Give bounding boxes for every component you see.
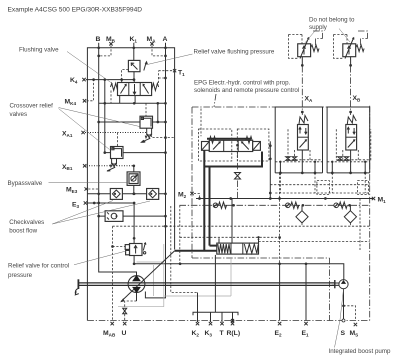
orifice spring symbol 1 xyxy=(213,202,226,208)
port K4 xyxy=(70,77,86,84)
port MK4 xyxy=(65,99,87,106)
svg-text:EPG Electr.-hydr. control with: EPG Electr.-hydr. control with prop. xyxy=(194,80,291,87)
port R(L) xyxy=(227,319,241,337)
checkvalve boost left xyxy=(110,189,122,200)
boost filter orifice box xyxy=(105,211,123,222)
svg-text:Relief valve for control: Relief valve for control xyxy=(8,263,69,270)
port B tick xyxy=(96,36,101,48)
wire K4 line xyxy=(86,78,134,81)
remote pilot mid rail dashed xyxy=(270,184,369,186)
wire upper crossover drain dashed xyxy=(153,136,175,139)
wire MA gauge dashed xyxy=(152,46,166,56)
wire B bus xyxy=(97,46,136,275)
orifice bowtie under EPG valve xyxy=(235,152,241,199)
port M1 xyxy=(372,197,386,204)
pilot orifice bus wire xyxy=(180,204,370,207)
svg-text:valves: valves xyxy=(10,111,28,118)
wire lower crossover right port to A xyxy=(123,151,167,154)
XA cartridge solid frame xyxy=(275,107,322,173)
bottom port bracket xyxy=(193,312,238,322)
case drain dashed xyxy=(171,206,198,293)
orifice spring symbol 3 xyxy=(334,202,347,208)
wire flushing valve bottom line xyxy=(99,96,167,105)
XA pilot dashed box xyxy=(288,129,323,162)
svg-text:Integrated boost pump: Integrated boost pump xyxy=(329,348,391,355)
drive shaft xyxy=(75,279,334,295)
pilot cross line dashed xyxy=(113,225,370,228)
stroking valve pilot feed xyxy=(231,199,233,244)
left block housing frame xyxy=(87,48,174,321)
main pump xyxy=(128,275,145,293)
E2 pilot drain dashed xyxy=(278,173,281,265)
pump case drain stub xyxy=(136,293,138,301)
wire A bus xyxy=(145,46,166,297)
checkvalve diamond B xyxy=(344,205,356,226)
svg-text:Example A4CSG 500 EPG/30R-XXB3: Example A4CSG 500 EPG/30R-XXB35F994D xyxy=(8,7,143,14)
label relief valve for control pressure xyxy=(8,251,126,279)
wire upper crossover left port to B xyxy=(97,121,140,124)
port E3 xyxy=(72,201,87,209)
right assembly boundary xyxy=(369,106,371,321)
remote pilot dashed rail xyxy=(275,192,370,194)
port E1 xyxy=(302,264,310,338)
port M2 xyxy=(178,192,200,199)
label checkvalves boost flow xyxy=(9,201,150,235)
XA module lower pilot network xyxy=(275,157,322,193)
EPG proportional valve xyxy=(202,137,261,152)
wire flushing valve top ports xyxy=(122,80,135,83)
bypass valve xyxy=(127,172,140,186)
svg-text:Flushing valve: Flushing valve xyxy=(19,47,59,54)
wire relief valve to K4 line xyxy=(133,72,136,81)
svg-text:A: A xyxy=(163,36,168,43)
crossover relief valve upper xyxy=(140,116,153,142)
svg-text:boost flow: boost flow xyxy=(9,227,37,234)
do not belong label xyxy=(304,17,355,45)
label relief valve flushing pressure xyxy=(146,49,275,65)
svg-text:Checkvalves: Checkvalves xyxy=(9,219,44,226)
top-right external relief valve A xyxy=(289,31,323,67)
small dashed interconnect box 1 xyxy=(317,181,330,195)
small dashed interconnect box 2 xyxy=(358,181,369,195)
port E2 xyxy=(275,264,283,338)
pilot drain to boost line xyxy=(179,205,181,263)
wire upper crossover pilot stub xyxy=(145,103,147,116)
stroking valve drain dashed xyxy=(180,236,280,238)
wire MK4 gauge dashed xyxy=(87,80,94,101)
svg-text:Relief valve flushing pressure: Relief valve flushing pressure xyxy=(194,49,275,56)
wire E3 line xyxy=(87,202,135,244)
svg-text:pressure: pressure xyxy=(8,272,33,279)
EPG enclosure corner boundary xyxy=(329,258,331,321)
wire K1 down to relief valve xyxy=(132,46,135,60)
port S xyxy=(341,289,346,337)
EPG enclosure left boundary xyxy=(191,107,193,258)
EPG enclosure top boundary xyxy=(192,106,370,108)
checkvalve diamond A xyxy=(296,205,308,226)
svg-text:solenoids and remote pressure: solenoids and remote pressure control xyxy=(194,87,299,94)
wire relief control bottom to boost line xyxy=(133,256,136,266)
remote pilot dashed bus xyxy=(259,199,370,251)
svg-text:B: B xyxy=(96,36,101,43)
svg-text:S: S xyxy=(341,330,346,337)
wire lower crossover pilot stub xyxy=(116,133,118,147)
wire flushing valve pilot dashed right xyxy=(159,71,167,83)
port ME3 xyxy=(66,187,88,194)
top-right external relief valve B xyxy=(334,31,368,67)
wire K2 line up xyxy=(197,293,199,313)
XB pilot dashed box xyxy=(336,129,371,162)
port MS xyxy=(344,306,359,338)
wire bypass valve ports xyxy=(132,166,135,195)
svg-text:U: U xyxy=(122,330,127,337)
svg-text:supply: supply xyxy=(309,24,328,31)
port MA xyxy=(147,36,157,46)
port XA1 xyxy=(62,131,85,138)
port MAB dashed drain xyxy=(103,226,116,337)
M1 gauge bus wire xyxy=(196,197,374,200)
flushing valve V2 xyxy=(111,83,159,96)
EPG pilot dashed from boundary xyxy=(200,109,202,137)
wire XB1 remote pilot dotted xyxy=(87,164,136,167)
EPG enclosure bottom boundary xyxy=(192,257,330,259)
port K1 tick xyxy=(130,36,138,48)
label flushing valve xyxy=(19,47,113,85)
variable displacement feedback arrow xyxy=(120,251,174,303)
svg-text:R(L): R(L) xyxy=(227,330,241,337)
orifice spring symbol 2 xyxy=(286,202,299,208)
wire flushing valve pilot dashed left xyxy=(110,91,112,104)
port T1 xyxy=(159,69,186,77)
XB module lower pilot network xyxy=(327,157,370,193)
XB cartridge solid frame xyxy=(327,107,370,173)
boost pump xyxy=(332,280,348,289)
boost line wire xyxy=(134,262,344,280)
integrated boost pump label xyxy=(329,289,391,355)
wire filter box connections xyxy=(97,215,166,218)
checkvalve bus wire xyxy=(87,192,166,195)
XA pressure reducing valve xyxy=(298,66,314,174)
stroking control valve xyxy=(217,237,260,254)
port U drain with orifice xyxy=(122,301,137,337)
wire MB gauge dashed xyxy=(99,46,111,56)
port K3 xyxy=(205,322,213,338)
XB pressure reducing valve xyxy=(346,66,361,174)
port MB xyxy=(106,36,116,46)
relief valve flushing pressure V1 xyxy=(122,60,148,79)
bottom assembly boundary xyxy=(87,320,369,322)
svg-text:Do not belong to: Do not belong to xyxy=(309,17,355,24)
label crossover relief valves xyxy=(10,103,140,150)
EPG right feed vertical xyxy=(269,141,272,200)
wire cylinder drain to bracket xyxy=(214,255,216,312)
svg-text:Bypassvalve: Bypassvalve xyxy=(8,180,43,187)
label EPG control xyxy=(194,80,299,108)
port A tick xyxy=(163,36,168,48)
relief valve for control pressure xyxy=(111,243,146,256)
wire XA1 remote pilot dotted xyxy=(85,132,147,134)
wire lower crossover left port xyxy=(103,80,110,154)
wire ME3 dashed xyxy=(88,189,100,204)
port XB1 xyxy=(62,164,86,171)
port K2 xyxy=(192,322,200,338)
thick control lines xyxy=(175,150,262,251)
label bypassvalve xyxy=(8,180,128,187)
port T xyxy=(220,322,225,337)
crossover relief valve lower xyxy=(106,147,123,172)
gray pump module outline xyxy=(118,244,231,307)
wire upper crossover right port to A xyxy=(153,103,167,123)
svg-text:Crossover relief: Crossover relief xyxy=(10,103,54,110)
EPG valve pilot dashed frame xyxy=(199,129,232,161)
checkvalve boost right xyxy=(147,189,159,200)
